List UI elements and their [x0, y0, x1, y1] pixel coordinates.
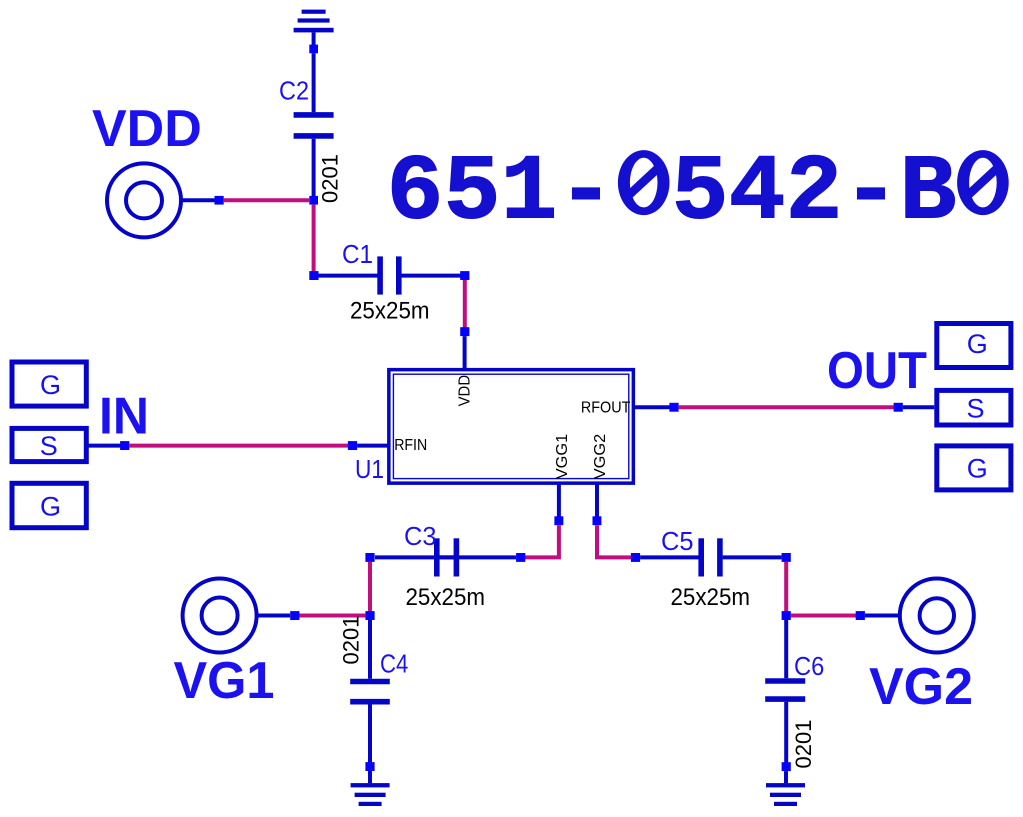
node: junction at top ground	[309, 45, 318, 54]
capacitor C1	[319, 239, 462, 325]
port OUT (G box lower)	[937, 446, 1011, 490]
svg-text:RFOUT: RFOUT	[581, 399, 631, 416]
wire (magenta)	[784, 562, 788, 612]
svg-text:VDD: VDD	[457, 375, 474, 407]
node: junction RFOUT	[669, 403, 678, 412]
wire	[181, 198, 216, 202]
capacitor C3	[375, 521, 516, 611]
wire VGG2 pin	[595, 483, 599, 517]
svg-text:G: G	[40, 492, 61, 522]
port VG2	[869, 579, 974, 717]
svg-text:C6: C6	[794, 651, 824, 681]
node: junction above U1 VDD pin	[460, 327, 469, 336]
svg-text:S: S	[967, 394, 985, 424]
svg-text:VGG1: VGG1	[554, 434, 571, 480]
node: junction C3 left / C4 top	[365, 553, 374, 562]
svg-text:G: G	[967, 329, 988, 359]
port IN (G box)	[12, 362, 86, 406]
svg-text:25x25m: 25x25m	[350, 298, 430, 325]
node: junction above ground (C4)	[365, 762, 374, 771]
node: junction C3 right	[516, 553, 525, 562]
port OUT (G box)	[937, 324, 1011, 368]
svg-text:VGG2: VGG2	[592, 434, 609, 480]
wire VGG1 pin	[557, 483, 561, 517]
svg-text:C1: C1	[342, 239, 373, 269]
node: junction at VG2 port	[856, 611, 865, 620]
node: junction VGG1	[554, 516, 563, 525]
node: junction C1 right	[460, 271, 469, 280]
wire (magenta)	[129, 444, 348, 448]
node: junction VDD net	[309, 196, 318, 205]
svg-text:C5: C5	[661, 526, 694, 556]
node: junction C5 left	[631, 553, 640, 562]
wire (magenta)	[679, 405, 894, 409]
op-amp U1 (amplifier block)	[355, 370, 633, 484]
svg-text:0201: 0201	[339, 616, 364, 665]
wire (magenta)	[368, 562, 372, 612]
wire (magenta)	[312, 205, 316, 272]
svg-text:0201: 0201	[791, 720, 816, 769]
wire	[312, 139, 316, 197]
svg-text:RFIN: RFIN	[394, 437, 427, 454]
wire	[312, 53, 316, 112]
wire	[865, 614, 899, 618]
port IN (G box lower)	[12, 483, 86, 527]
node: junction at VDD port	[215, 196, 224, 205]
wire (magenta)	[224, 198, 310, 202]
svg-text:25x25m: 25x25m	[671, 584, 751, 611]
svg-text:C2: C2	[279, 76, 309, 106]
wire (magenta)	[463, 280, 467, 328]
wire	[258, 614, 290, 618]
node: junction RFIN	[348, 441, 357, 450]
node: junction VGG2	[593, 516, 602, 525]
svg-text:C3: C3	[404, 521, 437, 551]
svg-text:651-: 651-	[387, 141, 615, 246]
ground (C6)	[766, 771, 805, 806]
svg-text:0201: 0201	[318, 154, 343, 203]
svg-text:VG1: VG1	[174, 652, 275, 710]
capacitor C2	[279, 76, 334, 136]
node: junction C5 right / C6 top	[782, 553, 791, 562]
node: junction at VG1 port	[290, 611, 299, 620]
wire	[463, 336, 467, 368]
title 651-0542-B0	[387, 141, 1009, 246]
svg-text:25x25m: 25x25m	[406, 584, 486, 611]
svg-text:IN: IN	[99, 388, 149, 446]
wire (magenta)	[791, 614, 856, 618]
node: junction above ground (C6)	[782, 762, 791, 771]
ground (C4)	[351, 771, 390, 806]
wire (magenta) VGG2 to C5	[597, 525, 631, 557]
svg-text:G: G	[40, 370, 61, 400]
svg-text:OUT: OUT	[827, 342, 927, 400]
wire	[357, 444, 389, 448]
svg-text:S: S	[40, 431, 58, 461]
node: junction OUT	[894, 403, 903, 412]
svg-text:U1: U1	[355, 454, 384, 484]
port IN (S box)	[12, 428, 86, 461]
svg-text:VDD: VDD	[92, 100, 202, 158]
wire	[903, 405, 935, 409]
port OUT (S box)	[937, 390, 1011, 425]
port VDD	[92, 100, 202, 237]
wire RFOUT	[634, 405, 670, 409]
svg-text:G: G	[967, 454, 988, 484]
capacitor C6	[765, 620, 824, 763]
svg-text:542-B: 542-B	[672, 141, 957, 246]
ground (top, inverted)	[294, 10, 334, 46]
svg-text:VG2: VG2	[869, 658, 973, 716]
capacitor C4	[350, 620, 408, 763]
node: junction VG2 net	[782, 611, 791, 620]
capacitor C5	[640, 526, 782, 611]
node: junction IN	[120, 441, 129, 450]
node: junction C1 left	[309, 271, 318, 280]
wire (magenta) VGG1 to C3	[524, 525, 559, 557]
svg-text:C4: C4	[380, 649, 408, 679]
wire (magenta)	[299, 614, 365, 618]
port VG1	[174, 579, 275, 711]
wire	[88, 444, 121, 448]
node: junction VG1 net	[365, 611, 374, 620]
